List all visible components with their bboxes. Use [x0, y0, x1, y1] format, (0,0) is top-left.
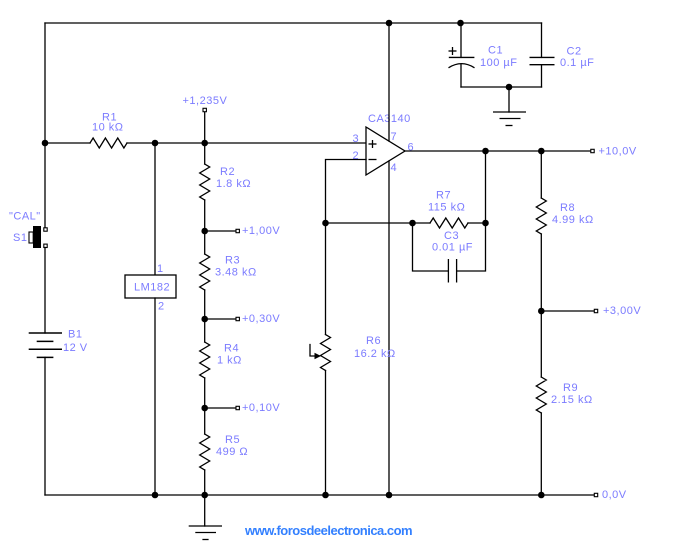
wire battery to bottom rail — [44, 357, 46, 495]
svg-text:16.2 kΩ: 16.2 kΩ — [354, 348, 396, 360]
node +0,10V — [201, 402, 280, 414]
svg-text:0,0V: 0,0V — [602, 489, 627, 501]
value 3.48 kOhm — [215, 267, 257, 279]
value 12 V — [63, 342, 88, 354]
resistor R1 — [45, 138, 155, 148]
value 115 kOhm — [428, 202, 465, 214]
junction output feedback — [482, 148, 489, 155]
wire switch to battery — [44, 248, 46, 334]
value 0.01 uF — [432, 242, 473, 254]
pin 4 label — [391, 162, 398, 174]
pin 6 label — [408, 142, 415, 154]
wire capacitor bottoms — [461, 86, 542, 88]
resistor R3 — [200, 231, 210, 319]
svg-text:2: 2 — [353, 150, 360, 162]
label C1 — [488, 45, 503, 57]
label R3 — [225, 255, 240, 267]
junction C1 top rail — [457, 20, 464, 27]
wire op-amp output — [405, 150, 591, 152]
svg-text:www.forosdeelectronica.com: www.forosdeelectronica.com — [244, 523, 412, 538]
node +1,00V — [201, 225, 280, 237]
svg-text:4.99 kΩ: 4.99 kΩ — [552, 214, 594, 226]
junction left R1 — [42, 140, 49, 147]
wire feedback row — [326, 222, 413, 224]
label R6 — [366, 335, 381, 347]
battery B1 — [29, 333, 62, 357]
capacitor C1 — [449, 23, 475, 87]
label R2 — [220, 166, 235, 178]
svg-text:2: 2 — [158, 301, 165, 313]
junction LM182 top — [152, 140, 159, 147]
svg-text:10 kΩ: 10 kΩ — [92, 122, 124, 134]
label R4 — [224, 343, 239, 355]
value 0.1 uF — [560, 57, 594, 69]
resistor R4 — [200, 319, 210, 408]
svg-text:R8: R8 — [560, 202, 575, 214]
svg-text:499 Ω: 499 Ω — [216, 446, 248, 458]
svg-text:1 kΩ: 1 kΩ — [217, 355, 242, 367]
node 0,0V — [594, 489, 626, 501]
svg-text:R5: R5 — [225, 434, 240, 446]
pin 2 label — [353, 150, 360, 162]
svg-text:LM182: LM182 — [134, 282, 170, 294]
label S1 — [13, 232, 27, 244]
value 499 Ohm — [216, 446, 248, 458]
label R7 — [436, 190, 451, 202]
svg-text:"CAL": "CAL" — [9, 211, 41, 223]
svg-text:+0,30V: +0,30V — [242, 313, 280, 325]
value 1.8 kOhm — [216, 178, 251, 190]
junction inverting node — [322, 220, 329, 227]
potentiometer R6 — [310, 335, 331, 371]
pin 1 label LM182 — [157, 263, 164, 275]
capacitor C3 — [413, 223, 486, 283]
junction pot bottom rail — [322, 492, 329, 499]
junction R7 left — [409, 220, 416, 227]
junction pin7 top rail — [386, 20, 393, 27]
svg-text:1.8 kΩ: 1.8 kΩ — [216, 178, 251, 190]
node +10,0V — [591, 145, 637, 157]
svg-text:R7: R7 — [436, 190, 451, 202]
svg-text:4: 4 — [391, 162, 398, 174]
pin 3 label — [353, 133, 360, 145]
svg-text:B1: B1 — [68, 329, 82, 341]
resistor R2 — [200, 143, 210, 231]
wire top rail — [45, 22, 542, 24]
wire pin 4 to bottom rail — [388, 161, 390, 495]
label R1 — [102, 112, 117, 124]
label C3 — [444, 230, 459, 242]
svg-text:R6: R6 — [366, 335, 381, 347]
svg-text:+1,00V: +1,00V — [242, 225, 280, 237]
value 2.15 kOhm — [551, 394, 593, 406]
svg-text:+3,00V: +3,00V — [603, 305, 641, 317]
svg-text:0.1 µF: 0.1 µF — [560, 57, 594, 69]
junction R7 right — [482, 220, 489, 227]
junction R9 bottom rail — [538, 492, 545, 499]
pin 7 label — [391, 131, 398, 143]
value 4.99 kOhm — [552, 214, 594, 226]
svg-text:7: 7 — [391, 131, 398, 143]
site caption — [244, 523, 412, 538]
junction divider top — [201, 140, 208, 147]
label B1 — [68, 329, 82, 341]
label "CAL" — [9, 211, 41, 223]
svg-text:C2: C2 — [567, 46, 582, 58]
value 10 kOhm — [92, 122, 124, 134]
svg-text:3.48 kΩ: 3.48 kΩ — [215, 267, 257, 279]
svg-text:3: 3 — [353, 133, 360, 145]
svg-text:12 V: 12 V — [63, 342, 88, 354]
svg-text:C1: C1 — [488, 45, 503, 57]
value 16.2 kOhm — [354, 348, 396, 360]
svg-text:C3: C3 — [444, 230, 459, 242]
value 100 uF — [480, 57, 517, 69]
svg-text:+1,235V: +1,235V — [183, 95, 228, 107]
op-amp U1 CA3140 — [366, 127, 405, 175]
resistor R5 — [200, 408, 210, 495]
junction bottom rail divider — [201, 492, 208, 499]
svg-text:R3: R3 — [225, 255, 240, 267]
ground top — [493, 87, 526, 126]
wire inverting node to pot — [325, 223, 327, 335]
svg-text:0.01 µF: 0.01 µF — [432, 242, 473, 254]
resistor R9 — [536, 311, 546, 495]
label R9 — [563, 382, 578, 394]
label R8 — [560, 202, 575, 214]
wire pot to bottom rail — [325, 371, 327, 496]
wire pin 7 supply — [388, 23, 390, 141]
wire bottom rail — [45, 494, 595, 496]
svg-text:S1: S1 — [13, 232, 27, 244]
svg-text:R4: R4 — [224, 343, 239, 355]
value 1 kOhm — [217, 355, 242, 367]
resistor R7 — [413, 218, 486, 228]
node +3,00V — [538, 305, 641, 317]
node +1,235V — [183, 95, 228, 143]
junction output R8 — [538, 148, 545, 155]
wire feedback to output — [485, 151, 487, 223]
junction pin4 bottom rail — [386, 492, 393, 499]
svg-text:100 µF: 100 µF — [480, 57, 517, 69]
svg-text:+10,0V: +10,0V — [599, 145, 637, 157]
svg-text:2.15 kΩ: 2.15 kΩ — [551, 394, 593, 406]
svg-text:R2: R2 — [220, 166, 235, 178]
capacitor C2 — [530, 23, 555, 87]
junction bottom rail LM182 — [152, 492, 159, 499]
svg-text:R9: R9 — [563, 382, 578, 394]
svg-text:+0,10V: +0,10V — [242, 402, 280, 414]
wire mid horizontal to op-amp pin 3 — [155, 142, 366, 144]
resistor R8 — [536, 151, 546, 311]
junction ground top — [506, 84, 513, 91]
ground bottom — [189, 495, 222, 540]
label CA3140 — [368, 113, 411, 125]
label R5 — [225, 434, 240, 446]
wire left vertical upper — [44, 23, 46, 228]
IC U2 LM182 — [125, 143, 176, 495]
wire op-amp pin 2 — [326, 160, 367, 224]
pin 2 label LM182 — [158, 301, 165, 313]
svg-text:1: 1 — [157, 263, 164, 275]
svg-text:115 kΩ: 115 kΩ — [428, 202, 465, 214]
label C2 — [567, 46, 582, 58]
svg-text:6: 6 — [408, 142, 415, 154]
node +0,30V — [201, 313, 280, 325]
switch S1 — [29, 226, 47, 248]
